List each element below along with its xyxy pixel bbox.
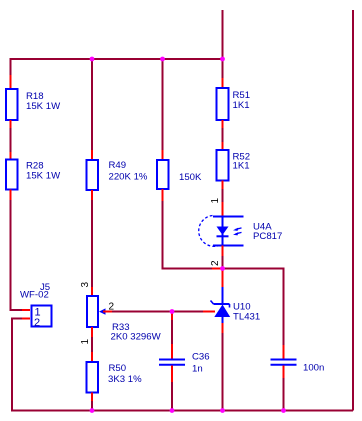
pin 2 label J5 — [34, 317, 40, 329]
label J5 — [20, 282, 50, 301]
pin 1 label opto — [210, 198, 221, 204]
lead R50 bottom — [91, 393, 93, 402]
pin 3 label pot — [80, 282, 91, 288]
wire C36 to bottom bus — [171, 382, 173, 410]
svg-text:R49: R49 — [109, 160, 127, 171]
label R52 — [233, 152, 251, 172]
wire 100n cap to bottom bus — [283, 378, 285, 410]
wire 150K down and right to TL431 node — [163, 201, 213, 269]
wire right bus vertical — [352, 10, 354, 411]
resistor R51 — [217, 88, 229, 120]
svg-text:PC817: PC817 — [253, 231, 282, 242]
svg-text:1K1: 1K1 — [233, 161, 250, 172]
wire R50 to bottom bus — [91, 401, 93, 410]
capacitor C36 — [159, 360, 185, 365]
lead opto pin2 — [222, 246, 224, 257]
wire R51 to R52 — [222, 128, 224, 142]
lead R49 top — [91, 150, 93, 160]
resistor 150K — [157, 160, 169, 189]
wire top bus to R51 — [222, 59, 224, 78]
svg-text:WF-02: WF-02 — [20, 290, 49, 301]
svg-text:1K1: 1K1 — [233, 100, 250, 111]
svg-text:TL431: TL431 — [233, 312, 260, 323]
wire top bus horizontal — [11, 58, 223, 60]
lead pot pin3 — [91, 287, 93, 296]
pin 2 label pot — [109, 302, 115, 313]
lead C36 top node — [171, 312, 173, 320]
node junction bottom at R50 — [90, 408, 95, 413]
svg-text:3: 3 — [80, 282, 91, 288]
capacitor 100n — [271, 360, 297, 365]
svg-text:1: 1 — [210, 198, 221, 204]
node junction top bus at R49 — [90, 57, 95, 62]
lead R49 bottom — [91, 190, 93, 200]
lead 100n cap top — [283, 345, 285, 359]
node junction wiper C36 — [170, 309, 175, 314]
label R50 — [108, 363, 142, 385]
connector J5 box — [32, 306, 52, 327]
resistor R50 — [87, 362, 99, 393]
wire R49 to pot R33 — [91, 200, 93, 287]
lead TL431 ref — [203, 311, 215, 313]
lead C36 bottom — [171, 366, 173, 383]
svg-text:1n: 1n — [192, 364, 203, 375]
wire left bus to J5 pin1 — [10, 309, 31, 311]
lead R51 top — [222, 78, 224, 88]
lead TL431 cathode — [222, 269, 224, 288]
lead C36 top — [171, 344, 173, 359]
wire C36 column upper — [171, 320, 173, 344]
svg-text:2: 2 — [34, 317, 40, 329]
svg-text:15K 1W: 15K 1W — [26, 101, 61, 112]
svg-text:2: 2 — [210, 260, 221, 266]
lead R28 bottom — [10, 190, 12, 201]
svg-text:3K3 1%: 3K3 1% — [108, 374, 142, 385]
node junction bottom at TL431 — [220, 408, 225, 413]
wire R52 to opto pin1 — [222, 189, 224, 202]
potentiometer R33 wiper arrow — [99, 308, 112, 314]
label R33 — [111, 322, 162, 343]
lead R52 top — [222, 142, 224, 150]
wire TL431 anode to bottom bus — [222, 333, 224, 410]
potentiometer R33 body — [87, 296, 98, 327]
node junction bottom at 100n — [281, 408, 286, 413]
label 100n value — [303, 363, 324, 374]
label 150K value — [179, 172, 202, 183]
wire pot to R50 — [91, 337, 93, 352]
lead TL431 anode — [222, 323, 224, 333]
label C36 — [192, 352, 210, 375]
svg-text:150K: 150K — [179, 172, 202, 183]
wire 150K column upper — [162, 59, 164, 150]
transistor U10 TL431 shunt regulator — [211, 287, 231, 323]
wire opto column top stub — [222, 10, 224, 59]
resistor R28 — [6, 160, 18, 190]
node junction TL431 cathode — [220, 266, 225, 271]
lead R50 top — [91, 352, 93, 362]
lead 100n cap bottom — [283, 366, 285, 379]
node junction top bus at R51 — [220, 57, 225, 62]
label U4A — [253, 222, 282, 243]
wire pot wiper to TL431 ref — [112, 311, 203, 313]
wire opto pin2 to node — [222, 256, 224, 268]
pin 2 label opto — [210, 260, 221, 266]
lead R18 bottom — [10, 120, 12, 128]
lead R51 bottom — [222, 120, 224, 128]
svg-text:220K 1%: 220K 1% — [109, 172, 148, 183]
wire left bus vertical segments — [10, 58, 12, 310]
svg-text:100n: 100n — [303, 363, 324, 374]
pin 1 label pot — [80, 339, 91, 345]
wire J5 pin2 to lower-left bus — [12, 319, 30, 411]
lead R52 bottom — [222, 181, 224, 190]
svg-text:2K0 3296W: 2K0 3296W — [111, 332, 162, 343]
svg-text:R50: R50 — [109, 363, 127, 374]
svg-text:15K 1W: 15K 1W — [26, 171, 61, 182]
svg-text:1: 1 — [80, 339, 91, 345]
node junction bottom at C36 — [170, 408, 175, 413]
wire node to 100n cap branch — [223, 269, 284, 346]
lead R18 top — [10, 75, 12, 89]
lead into node at TL431 top — [212, 268, 222, 270]
resistor R49 — [87, 160, 99, 190]
pin 1 label J5 — [35, 307, 41, 319]
wire bottom bus horizontal — [11, 410, 353, 412]
label R18 — [26, 91, 61, 112]
lead R28 top — [10, 152, 12, 160]
node junction top bus at 150K — [160, 57, 165, 62]
resistor R52 — [217, 150, 229, 181]
lead 150K bottom — [162, 189, 164, 201]
lead opto pin1 — [222, 202, 224, 216]
lead 150K top — [162, 150, 164, 160]
resistor R18 — [6, 89, 18, 120]
svg-text:C36: C36 — [192, 352, 210, 363]
wire R49 column upper — [91, 59, 93, 150]
op-amp U4A optocoupler PC817 — [199, 216, 244, 247]
label R28 — [26, 161, 61, 182]
label R51 — [233, 90, 251, 111]
lead pot pin1 — [91, 327, 93, 337]
label R49 — [109, 160, 148, 183]
label U10 — [233, 302, 260, 323]
